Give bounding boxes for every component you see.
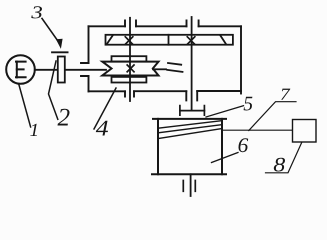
equals mark: [167, 63, 182, 72]
vertical shaft I: [129, 18, 131, 101]
worm shaft right stub: [153, 68, 166, 70]
drum top bearing bracket: [180, 106, 205, 116]
control box B: [293, 120, 317, 143]
vertical shaft II: [191, 17, 193, 110]
leader 4: [94, 88, 116, 129]
drum D body: [152, 119, 226, 174]
worm W1: [102, 62, 158, 76]
gearbox housing left wall: [81, 26, 89, 91]
worm wheel lower rim: [112, 77, 147, 83]
fixed-joint cross X on bar shaft I: [125, 37, 133, 45]
drum bottom shaft: [190, 174, 192, 196]
motor M circle: [6, 55, 35, 84]
leader 2: [49, 61, 58, 119]
gearbox housing bottom wall: [89, 91, 242, 100]
worm wheel upper rim: [112, 56, 147, 61]
helix lines inside drum: [158, 121, 222, 139]
label 2: [58, 109, 70, 126]
motor shaft: [35, 69, 58, 71]
coupling C: [58, 57, 65, 83]
gearbox housing top wall: [89, 20, 242, 26]
fixed-joint cross X on bar shaft II: [187, 37, 195, 45]
gearbox housing right wall: [240, 26, 242, 93]
leader 5: [206, 106, 244, 117]
label 7: [281, 89, 290, 100]
gear bar (upper shaft block): [106, 35, 233, 45]
leader 8: [266, 142, 302, 173]
label 8: [274, 158, 285, 172]
arrow to coupling: [42, 19, 59, 43]
drum bottom bearing ticks: [183, 181, 195, 192]
label 5: [244, 97, 253, 111]
leader 7: [249, 102, 296, 131]
leader 1: [19, 85, 31, 127]
label 3: [31, 6, 42, 18]
fixed-joint cross X on worm: [127, 65, 134, 72]
motor letter E: [16, 62, 26, 78]
input shaft into gearbox: [65, 69, 106, 71]
leader 6: [212, 153, 239, 163]
label 4: [96, 121, 108, 136]
label 6: [239, 138, 249, 152]
coupling top tick: [52, 51, 68, 53]
label 1: [30, 124, 37, 136]
line from drum to control box: [222, 129, 293, 131]
